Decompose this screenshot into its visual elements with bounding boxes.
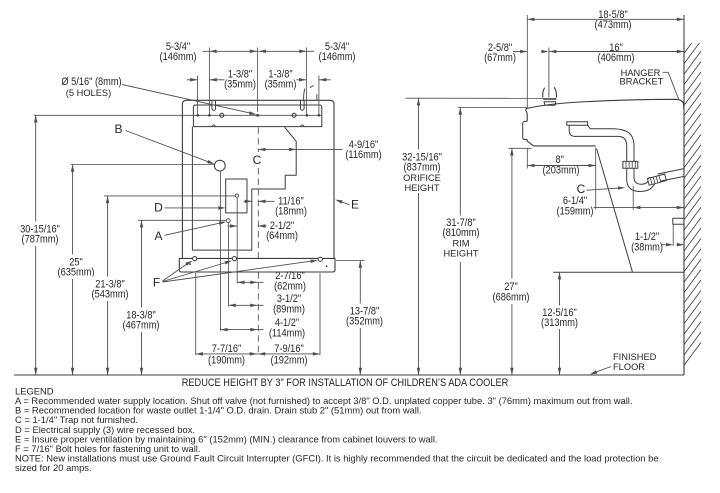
bracket tab right bbox=[316, 94, 318, 100]
reduce height note bbox=[182, 377, 509, 389]
svg-text:7-7/16": 7-7/16" bbox=[212, 343, 242, 355]
svg-text:(635mm): (635mm) bbox=[58, 267, 95, 279]
mounting hole outer right bbox=[318, 114, 321, 117]
dimension 11/16 bbox=[244, 196, 307, 218]
dimension 1-3/8 left bbox=[187, 69, 256, 91]
dimension 4-1/2 bbox=[220, 317, 305, 340]
mounting hole dot left bbox=[208, 114, 211, 117]
mounting hole centre line bbox=[34, 114, 322, 116]
dimension 5-3/4 left bbox=[160, 41, 258, 63]
extension line 6-1/4 bbox=[632, 186, 634, 210]
cabinet sloped front bbox=[597, 149, 633, 272]
svg-text:(35mm): (35mm) bbox=[224, 79, 256, 91]
dimension 27 height bbox=[488, 148, 534, 375]
label C trap leader bbox=[577, 182, 626, 196]
bracket tab left bbox=[304, 89, 305, 101]
wall line bbox=[683, 15, 685, 375]
dimension 16 bbox=[549, 42, 684, 64]
dimension 13-7/8 height bbox=[345, 261, 384, 376]
hole size callout O 5/16 bbox=[61, 76, 256, 115]
bolt hole F1 bbox=[193, 257, 197, 261]
mounting hole centre bbox=[256, 114, 259, 117]
label D leader bbox=[154, 201, 225, 215]
dimension 6-1/4 bbox=[557, 195, 685, 218]
flange rivet left bbox=[189, 263, 191, 265]
label E leader bbox=[335, 198, 359, 212]
trap J-bend bbox=[627, 168, 657, 191]
svg-text:A: A bbox=[154, 229, 162, 243]
label A leader bbox=[154, 222, 226, 244]
svg-text:(38mm): (38mm) bbox=[631, 242, 663, 254]
dimension 18-5/8 bbox=[527, 9, 684, 31]
wall cleat bbox=[673, 218, 684, 224]
svg-text:7-9/16": 7-9/16" bbox=[274, 343, 304, 355]
svg-text:(18mm): (18mm) bbox=[275, 206, 307, 218]
dimension 25 height bbox=[55, 165, 97, 376]
svg-text:C: C bbox=[253, 153, 262, 167]
svg-text:HEIGHT: HEIGHT bbox=[443, 249, 478, 259]
orifice reference line bbox=[406, 97, 557, 99]
cooler front face bbox=[526, 109, 534, 146]
label F leaders bbox=[153, 260, 318, 290]
water supply circle B bbox=[214, 160, 225, 171]
keyhole slot right bbox=[301, 100, 305, 110]
dimension 1-3/8 right bbox=[265, 69, 331, 91]
keyhole slot left bbox=[212, 100, 216, 110]
dimension 32-15/16 orifice height bbox=[400, 98, 444, 375]
svg-text:(62mm): (62mm) bbox=[274, 281, 306, 293]
slip nut lower bbox=[647, 174, 666, 185]
reference line 13-7/8 bbox=[336, 260, 365, 262]
mounting hole mid right bbox=[292, 113, 296, 117]
svg-text:(787mm): (787mm) bbox=[22, 234, 59, 246]
dimension 8 bbox=[527, 154, 595, 176]
svg-text:F: F bbox=[153, 276, 160, 290]
mounting hole outer left bbox=[196, 114, 199, 117]
svg-text:(146mm): (146mm) bbox=[319, 51, 356, 63]
svg-text:Ø 5/16" (8mm): Ø 5/16" (8mm) bbox=[61, 76, 121, 88]
rim reference line bbox=[458, 107, 528, 109]
extension line below hole A bbox=[228, 223, 230, 307]
svg-text:(64mm): (64mm) bbox=[266, 230, 298, 242]
dimension 30-15/16 height bbox=[16, 115, 63, 375]
svg-text:HEIGHT: HEIGHT bbox=[404, 183, 439, 193]
dimension 3-1/2 bbox=[229, 293, 305, 316]
svg-text:(473mm): (473mm) bbox=[595, 19, 632, 31]
finished floor line bbox=[14, 374, 684, 376]
svg-text:(114mm): (114mm) bbox=[269, 328, 305, 340]
dimension 21-3/8 height bbox=[90, 196, 130, 375]
back panel stepped outline bbox=[192, 127, 296, 251]
body top-right edge tick bbox=[310, 85, 314, 87]
hanger bracket label bbox=[620, 68, 679, 99]
svg-text:(192mm): (192mm) bbox=[271, 355, 308, 367]
svg-text:ORIFICE: ORIFICE bbox=[403, 173, 441, 183]
svg-text:(190mm): (190mm) bbox=[208, 355, 245, 367]
svg-text:NOTE: New installations must u: NOTE: New installations must use Ground … bbox=[15, 453, 659, 464]
bubbler bbox=[543, 87, 557, 105]
electrical box hole bbox=[235, 194, 238, 197]
reference line 27 bbox=[509, 147, 532, 149]
extension line flange hole right bbox=[319, 273, 321, 355]
svg-text:(543mm): (543mm) bbox=[92, 289, 129, 301]
svg-text:E: E bbox=[351, 198, 359, 212]
dimension 31-7/8 rim height bbox=[440, 108, 483, 376]
cooler body front view outline bbox=[182, 100, 334, 258]
bolt hole F2 bbox=[232, 257, 236, 261]
electrical box D bbox=[226, 179, 247, 213]
reference line 25in bbox=[71, 164, 214, 166]
drain cup and tailpiece bbox=[569, 125, 634, 161]
svg-text:(5 HOLES): (5 HOLES) bbox=[66, 88, 111, 98]
bubbler centreline bbox=[548, 48, 550, 98]
svg-text:(313mm): (313mm) bbox=[541, 317, 578, 329]
svg-text:FINISHED: FINISHED bbox=[613, 352, 657, 362]
extension line front face bbox=[526, 15, 528, 109]
svg-text:BRACKET: BRACKET bbox=[620, 77, 664, 87]
node C label bbox=[252, 153, 263, 167]
dimension 7-7/16 and 7-9/16 bbox=[196, 343, 320, 367]
svg-text:REDUCE HEIGHT BY 3" FOR INSTAL: REDUCE HEIGHT BY 3" FOR INSTALLATION OF … bbox=[182, 377, 509, 389]
extension line hole outer left bbox=[197, 76, 199, 116]
front view centreline bbox=[257, 128, 259, 354]
extension line below box D bbox=[236, 198, 238, 284]
push button bbox=[523, 121, 528, 139]
svg-text:(35mm): (35mm) bbox=[265, 79, 297, 91]
drain strainer flange bbox=[567, 122, 588, 125]
extension line flange hole left bbox=[195, 273, 197, 355]
flange rivet right bbox=[326, 265, 328, 267]
legend text block bbox=[15, 386, 659, 474]
extension line slot right bbox=[305, 48, 307, 116]
label B leader bbox=[114, 122, 214, 164]
svg-text:FLOOR: FLOOR bbox=[613, 362, 645, 372]
extension line 8in right bbox=[595, 148, 597, 210]
svg-text:B: B bbox=[114, 122, 122, 136]
svg-text:(837mm): (837mm) bbox=[404, 162, 441, 174]
basin top surface bbox=[526, 99, 684, 109]
extension line centre bbox=[257, 48, 259, 113]
extension line front face lower bbox=[526, 148, 528, 169]
extension line wall top bbox=[683, 15, 685, 43]
svg-text:(89mm): (89mm) bbox=[273, 304, 305, 316]
svg-text:(352mm): (352mm) bbox=[346, 316, 383, 328]
svg-text:(686mm): (686mm) bbox=[493, 292, 530, 304]
bolt hole F3 bbox=[318, 257, 322, 261]
mounting hole mid left bbox=[220, 113, 224, 117]
basin underside line bbox=[534, 145, 596, 147]
svg-text:D: D bbox=[154, 201, 163, 215]
svg-text:C: C bbox=[577, 182, 586, 196]
extension line hole outer right bbox=[318, 76, 320, 116]
dimension 2-5/8 bbox=[484, 42, 549, 64]
slip nut upper bbox=[623, 161, 638, 168]
svg-text:(203mm): (203mm) bbox=[543, 164, 580, 176]
svg-text:(67mm): (67mm) bbox=[484, 52, 516, 64]
wall hatching bbox=[684, 43, 701, 365]
svg-text:(810mm): (810mm) bbox=[443, 227, 480, 239]
svg-text:sized for 20 amps.: sized for 20 amps. bbox=[15, 462, 92, 473]
extension line below hole B bbox=[219, 171, 221, 331]
extension line slot left bbox=[208, 48, 210, 116]
bracket bottom notch right bbox=[301, 125, 304, 127]
svg-text:(406mm): (406mm) bbox=[598, 52, 635, 64]
reference line 18-3/8 bbox=[138, 219, 226, 221]
svg-text:(116mm): (116mm) bbox=[345, 149, 381, 161]
dimension 18-3/8 height bbox=[122, 220, 161, 375]
waste outlet hole A bbox=[226, 219, 230, 223]
mounting hole dot right bbox=[306, 114, 309, 117]
svg-text:(146mm): (146mm) bbox=[160, 51, 197, 63]
bracket bottom notch left bbox=[212, 125, 215, 127]
bottom flange bbox=[179, 258, 335, 272]
dimension 5-3/4 right bbox=[258, 41, 355, 63]
finished floor label bbox=[590, 352, 657, 375]
svg-text:RIM: RIM bbox=[452, 239, 469, 249]
dimension 2-1/2 bbox=[228, 220, 298, 242]
waste pipe to wall bbox=[658, 169, 684, 182]
reference line 21-3/8 bbox=[104, 195, 235, 197]
dimension 2-7/16 bbox=[237, 270, 306, 293]
dimension 4-9/16 bbox=[258, 139, 381, 161]
mounting bracket plate bbox=[193, 105, 321, 127]
cabinet bottom line bbox=[553, 271, 684, 273]
svg-text:(467mm): (467mm) bbox=[123, 320, 160, 332]
dimension 1-1/2 bbox=[631, 224, 684, 253]
dimension 12-5/16 bbox=[538, 272, 581, 375]
svg-text:(159mm): (159mm) bbox=[557, 206, 594, 218]
